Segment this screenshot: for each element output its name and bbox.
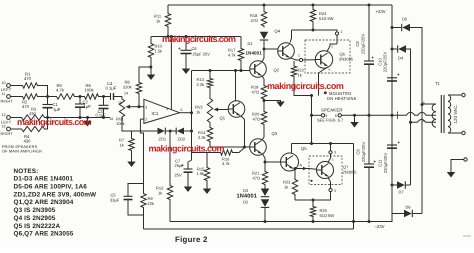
- wire: [10, 117, 20, 119]
- label mounted on heatsink: [324, 91, 327, 94]
- resistor R1: [21, 83, 39, 88]
- wire: output feedback drop: [353, 144, 355, 230]
- wire: [46, 118, 48, 130]
- resistor R20: [261, 110, 266, 126]
- resistor R2: [21, 94, 39, 99]
- svg-text:Q4 IS 2N2905: Q4 IS 2N2905: [14, 215, 56, 222]
- svg-text:1k: 1k: [196, 110, 200, 115]
- node: C9 on -23V rail: [368, 220, 371, 223]
- resistor R8: [136, 81, 141, 95]
- svg-text:47Ω: 47Ω: [251, 18, 258, 23]
- wire: R14 bottom to Q3 base node: [210, 143, 245, 147]
- dashed box: Q7 on heatsink: [309, 156, 342, 185]
- wire: [10, 85, 21, 87]
- resistor R14: [209, 124, 211, 126]
- RV2 wiper arrow: [216, 109, 228, 111]
- wire: Q3 emitter node: [262, 154, 265, 163]
- svg-text:100k: 100k: [85, 88, 95, 93]
- op-amp IC1: [144, 99, 180, 123]
- transformer T1 core: [440, 95, 442, 133]
- pin 1 of Q6: [299, 58, 302, 61]
- ground: [182, 69, 191, 75]
- wire: bottom feedback rail: [144, 228, 354, 230]
- resistor R23: [294, 169, 296, 179]
- svg-text:1k: 1k: [120, 143, 124, 148]
- wire: [10, 96, 21, 98]
- svg-text:+: +: [178, 46, 181, 51]
- wire: output node vertical: [188, 71, 192, 169]
- svg-text:2N3055: 2N3055: [339, 57, 354, 62]
- diode D2: [261, 199, 270, 207]
- notes block: [14, 168, 98, 238]
- svg-text:47Ω: 47Ω: [253, 117, 260, 122]
- resistor R17: [240, 37, 242, 48]
- svg-text:NOTES:: NOTES:: [14, 168, 39, 175]
- svg-text:1k: 1k: [158, 191, 162, 196]
- svg-text:11: 11: [2, 92, 6, 96]
- op-amp V+ pin 4: [170, 37, 172, 110]
- wire: R12 to negative rail: [169, 201, 171, 222]
- transistor Q7: [317, 162, 334, 179]
- wire: D5 anode to secondary top: [410, 28, 422, 214]
- wire + ground at R19/R20 node: [263, 99, 266, 102]
- svg-text:+: +: [372, 55, 375, 60]
- wire: inverting input to feedback node: [139, 119, 141, 131]
- svg-text:c: c: [332, 45, 334, 49]
- svg-text:4.7k: 4.7k: [228, 53, 236, 58]
- svg-text:16: 16: [110, 117, 114, 121]
- svg-text:D5-D6 ARE 100PIV, 1A6: D5-D6 ARE 100PIV, 1A6: [14, 184, 88, 191]
- wire: +23V top rail: [168, 4, 392, 6]
- svg-text:470: 470: [22, 104, 30, 109]
- svg-text:25µF 25V: 25µF 25V: [193, 52, 211, 57]
- speaker terminal 3: [312, 114, 322, 116]
- AC terminal bottom: [448, 132, 462, 134]
- svg-text:430: 430: [24, 139, 32, 144]
- svg-text:47Ω: 47Ω: [253, 176, 260, 181]
- node: R1/R2 junction: [46, 95, 49, 98]
- input terminal 11: [7, 95, 11, 99]
- svg-text:10: 10: [2, 81, 6, 85]
- capacitor C4: [110, 93, 112, 100]
- svg-text:+23V: +23V: [376, 9, 386, 14]
- capacitor C3: [103, 97, 105, 106]
- wire: [114, 96, 123, 98]
- svg-text:51Ω 5W: 51Ω 5W: [319, 16, 334, 21]
- wire: Q7 base with arrow A: [295, 168, 309, 170]
- transistor Q2: [250, 61, 267, 78]
- zener diode ZD1: [140, 130, 157, 132]
- resistor R22: [293, 61, 295, 65]
- capacitor C9: [368, 115, 370, 164]
- svg-text:1k: 1k: [284, 185, 288, 190]
- diode D1: [260, 32, 269, 40]
- input terminal 10: [7, 84, 11, 88]
- transistor Q5: [281, 153, 299, 171]
- svg-text:1N4001: 1N4001: [246, 50, 263, 55]
- Q7 base wire inside box: [309, 168, 317, 171]
- svg-text:C11: C11: [378, 159, 383, 167]
- svg-text:120 VAC.: 120 VAC.: [453, 104, 458, 123]
- capacitor C5: [128, 184, 144, 197]
- svg-text:14: 14: [124, 92, 128, 96]
- svg-text:15: 15: [118, 101, 122, 105]
- potentiometer RV2: [209, 89, 211, 97]
- svg-text:+: +: [398, 140, 401, 145]
- ground: [276, 102, 285, 108]
- ground: [150, 67, 152, 75]
- svg-text:220µF/25V: 220µF/25V: [383, 52, 388, 73]
- resistor R13: [209, 71, 211, 78]
- svg-text:Q5: Q5: [301, 146, 307, 151]
- wire: pin1 into box: [303, 59, 316, 61]
- svg-text:C6: C6: [192, 46, 198, 51]
- svg-text:1.5k: 1.5k: [197, 171, 205, 176]
- wire: D7 cathode junction: [405, 184, 410, 186]
- Q6 collector lead: [327, 44, 337, 52]
- wire: pin2 into box: [336, 35, 338, 44]
- resistor R21: [264, 162, 266, 170]
- wire: [10, 128, 20, 130]
- svg-text:Q4: Q4: [275, 29, 281, 34]
- diode D7: [392, 184, 397, 186]
- svg-text:RIGHT: RIGHT: [1, 100, 14, 104]
- RV1 wiper arrow: [129, 106, 139, 108]
- svg-text:D1: D1: [248, 41, 254, 46]
- wire: R10 bottom node: [150, 59, 152, 67]
- svg-text:Q5 IS 2N2222A: Q5 IS 2N2222A: [14, 223, 61, 230]
- scan artifact dash: [463, 235, 471, 237]
- AC terminal top: [448, 94, 462, 96]
- op-amp output pin 6: [180, 112, 192, 114]
- pin 2 of Q6: [335, 32, 338, 35]
- Q7 emitter lead to pin 5: [328, 178, 331, 189]
- svg-text:+: +: [374, 159, 377, 164]
- wire: R24 bottom / Q6 collector rail: [312, 23, 314, 30]
- wire: R9 bottom to bottom feedback rail: [143, 209, 145, 229]
- wire: feedback from node to C5/R9: [140, 131, 143, 192]
- svg-text:2N3055: 2N3055: [343, 170, 358, 175]
- pin 5 of Q7: [329, 188, 332, 191]
- svg-text:13: 13: [2, 125, 6, 129]
- svg-text:SPEAKER: SPEAKER: [321, 107, 343, 112]
- wire: bias chain top: [192, 70, 251, 72]
- node: C8/C9 on 0V rail: [368, 114, 371, 117]
- svg-text:220µF/25V: 220µF/25V: [383, 153, 388, 174]
- wire: Q4 collector: [290, 30, 292, 43]
- Q6 emitter lead: [319, 68, 328, 96]
- wire: input common line: [46, 117, 110, 119]
- wire: -23V rail: [170, 214, 392, 222]
- capacitor C1: [47, 97, 49, 105]
- resistor R5: [55, 94, 76, 99]
- wire: D2 to negative rail: [264, 207, 266, 221]
- capacitor C2: [79, 97, 81, 105]
- resistor R6: [83, 94, 100, 99]
- wire: pin 3 to output line: [330, 144, 332, 151]
- earth terminal and ground: [464, 158, 467, 161]
- svg-text:22k: 22k: [148, 201, 154, 206]
- op-amp pin 2 (- input): [140, 118, 144, 120]
- resistor R18: [263, 5, 265, 10]
- svg-text:2: 2: [145, 118, 147, 122]
- svg-text:+: +: [181, 163, 184, 168]
- svg-text:D6: D6: [406, 205, 412, 210]
- transformer T1 secondary winding: [432, 104, 436, 112]
- svg-text:25V: 25V: [175, 173, 182, 178]
- wire: [39, 86, 48, 97]
- svg-text:9: 9: [423, 119, 425, 123]
- svg-text:C10: C10: [377, 57, 382, 65]
- svg-text:0.1µF: 0.1µF: [106, 86, 117, 91]
- capacitor C10: [387, 77, 397, 79]
- wire: Q2 emitter to R19: [262, 76, 264, 84]
- transformer T1 primary winding: [448, 95, 451, 101]
- svg-text:3: 3: [145, 105, 147, 109]
- wire: zener node feed to R15/R16: [192, 152, 220, 154]
- svg-text:Q1,Q2 ARE 2N3904: Q1,Q2 ARE 2N3904: [14, 199, 74, 206]
- ground: [206, 182, 208, 189]
- svg-text:12: 12: [2, 113, 6, 117]
- svg-text:ON HEATSINK: ON HEATSINK: [327, 96, 357, 101]
- capacitor C11: [387, 144, 397, 146]
- svg-text:D2: D2: [243, 200, 249, 205]
- svg-text:makingcircuits.com: makingcircuits.com: [162, 34, 236, 44]
- capacitor C6: [185, 37, 187, 51]
- svg-text:ZD1,ZD2 ARE 3V9, 400mW: ZD1,ZD2 ARE 3V9, 400mW: [14, 191, 98, 198]
- wire: Q1 emitter: [241, 116, 245, 147]
- resistor R25: [312, 200, 314, 205]
- svg-text:OF MAIN AMPLIFIER: OF MAIN AMPLIFIER: [2, 149, 42, 153]
- input terminal 13: [7, 127, 11, 131]
- svg-text:1µF: 1µF: [84, 104, 92, 109]
- resistor R24: [312, 5, 314, 8]
- diode D3: [264, 186, 266, 189]
- wire: R16 to Q3 base node: [234, 147, 245, 153]
- svg-text:4.7k: 4.7k: [222, 161, 230, 166]
- transistor Q6: [315, 51, 332, 68]
- svg-text:+: +: [397, 72, 400, 77]
- svg-text:100k: 100k: [116, 121, 125, 126]
- svg-text:4.7k: 4.7k: [56, 88, 65, 93]
- svg-text:D3: D3: [243, 188, 249, 193]
- wire: regulated rail: [167, 28, 169, 37]
- wire: [76, 96, 83, 98]
- ground: [87, 118, 89, 122]
- svg-text:6: 6: [181, 108, 183, 112]
- svg-text:Q3 IS 2N3905: Q3 IS 2N3905: [14, 207, 56, 214]
- svg-text:Q3: Q3: [272, 131, 278, 136]
- ground: 0V center tap: [354, 115, 356, 122]
- svg-text:220µF/25V: 220µF/25V: [360, 34, 365, 55]
- wire: Q5 collector to output line: [291, 144, 293, 154]
- svg-text:4: 4: [166, 107, 168, 111]
- svg-text:IC1: IC1: [152, 111, 159, 116]
- transistor Q3: [250, 139, 267, 156]
- svg-text:makingcircuits.com: makingcircuits.com: [17, 117, 92, 127]
- wire: Q1 collector: [235, 71, 237, 101]
- svg-text:220k: 220k: [123, 85, 132, 90]
- svg-text:D4: D4: [398, 56, 404, 61]
- svg-text:430: 430: [29, 111, 36, 116]
- svg-text:2.2k: 2.2k: [197, 82, 205, 87]
- op-amp pin 3 (+ input): [139, 106, 144, 108]
- svg-text:D7: D7: [399, 190, 405, 195]
- svg-text:ZD2: ZD2: [178, 137, 186, 142]
- resistor R19: [261, 84, 266, 101]
- svg-text:1.5k: 1.5k: [155, 49, 163, 54]
- svg-text:51Ω 5W: 51Ω 5W: [320, 213, 335, 218]
- svg-text:1µF: 1µF: [53, 107, 61, 112]
- svg-text:2: 2: [341, 30, 343, 34]
- svg-text:C8: C8: [355, 41, 360, 47]
- wire: R8 to op-amp + input: [138, 95, 140, 107]
- Q7 collector lead to pin 3: [328, 154, 331, 163]
- diode D5: [392, 27, 401, 29]
- resistor R3: [20, 115, 46, 120]
- wire: output line: [292, 143, 354, 145]
- wire: right supply drop: [391, 5, 393, 214]
- zener diode ZD2: [177, 128, 184, 135]
- svg-text:C9: C9: [356, 149, 361, 155]
- svg-text:–23V: –23V: [375, 224, 385, 229]
- svg-text:Q1: Q1: [220, 116, 226, 121]
- wire: Q5 emitter to Q7 base node: [294, 168, 297, 170]
- capacitor C8: [368, 5, 370, 61]
- svg-text:470: 470: [24, 76, 32, 81]
- resistor R11: [167, 5, 169, 12]
- svg-text:33µF: 33µF: [110, 198, 120, 203]
- input terminal 12: [7, 116, 11, 120]
- wire: [165, 130, 176, 132]
- svg-text:8: 8: [423, 101, 425, 105]
- resistor R12: [169, 131, 171, 184]
- pin 3 of Q7: [329, 151, 332, 154]
- svg-text:makingcircuits.com: makingcircuits.com: [149, 144, 225, 154]
- wire: pin 5 down to R25 node: [295, 192, 331, 200]
- wire: Q3 collector to R20: [262, 126, 264, 140]
- wire: output node to speaker: [311, 96, 313, 144]
- svg-text:1k: 1k: [156, 19, 160, 24]
- svg-text:47Ω: 47Ω: [252, 90, 259, 95]
- svg-text:e: e: [329, 68, 331, 72]
- resistor R7: [131, 131, 133, 137]
- wire: D4 anode to secondary bottom: [406, 49, 411, 185]
- svg-text:1: 1: [298, 54, 300, 58]
- svg-text:220µF/25V: 220µF/25V: [361, 142, 366, 163]
- resistor R16: [219, 150, 234, 155]
- node: R25 on negative rail: [312, 220, 315, 223]
- resistor R9: [141, 192, 146, 209]
- dashed box: Q6 on heatsink: [305, 40, 350, 73]
- svg-text:Q6,Q7 ARE 2N3055: Q6,Q7 ARE 2N3055: [14, 231, 74, 238]
- svg-text:T1: T1: [435, 81, 441, 86]
- wire: Q2 collector to D1: [262, 41, 264, 63]
- svg-text:RIGHT: RIGHT: [1, 132, 14, 136]
- wire: Q4 base from D1 cathode line: [263, 48, 266, 51]
- svg-text:Q2: Q2: [274, 68, 280, 73]
- svg-text:ZD1: ZD1: [159, 137, 167, 142]
- ground: [184, 187, 193, 193]
- ground: [131, 152, 133, 162]
- svg-text:D1-D3 ARE 1N4001: D1-D3 ARE 1N4001: [14, 176, 74, 183]
- wire: D6 cathode junction: [412, 213, 422, 215]
- resistor R15: [206, 153, 208, 167]
- wire: R23 bottom: [294, 196, 296, 200]
- svg-text:1k: 1k: [298, 73, 302, 78]
- svg-text:5: 5: [334, 189, 336, 193]
- resistor R10: [150, 37, 152, 43]
- transistor Q4: [278, 43, 295, 60]
- svg-text:2.2k: 2.2k: [198, 135, 206, 140]
- wire: Q3 base: [245, 146, 251, 148]
- svg-text:Figure 2: Figure 2: [175, 235, 208, 244]
- svg-text:makingcircuits.com: makingcircuits.com: [267, 81, 344, 91]
- wire: Q4 emitter to Q6 base pin 1: [290, 58, 299, 60]
- wire: [100, 96, 111, 98]
- wire: R22 bottom to output node: [294, 78, 312, 96]
- potentiometer RV1: [121, 97, 123, 98]
- resistor R4: [20, 126, 46, 131]
- diode D4: [392, 48, 397, 50]
- wire: RV1 bottom to feedback node: [122, 126, 140, 132]
- transistor Q1: [228, 101, 245, 118]
- capacitor C7: [184, 168, 193, 170]
- svg-text:c: c: [332, 158, 334, 162]
- svg-text:3: 3: [334, 151, 336, 155]
- diode D6: [392, 213, 404, 215]
- svg-text:SEE FIGS. 6,7: SEE FIGS. 6,7: [317, 118, 344, 123]
- svg-text:D5: D5: [402, 17, 408, 22]
